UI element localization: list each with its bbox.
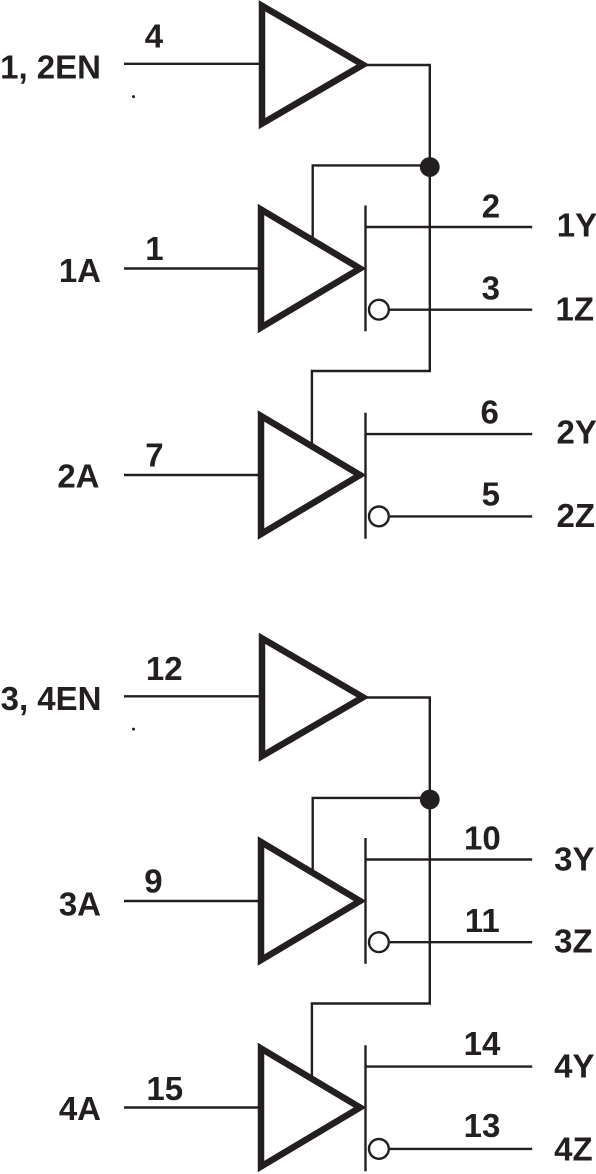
svg-text:2: 2 — [482, 188, 500, 225]
svg-text:3Z: 3Z — [554, 923, 593, 960]
svg-text:15: 15 — [146, 1070, 183, 1107]
svg-text:3: 3 — [482, 270, 500, 307]
svg-text:3Y: 3Y — [554, 841, 594, 878]
svg-text:1: 1 — [145, 230, 163, 267]
svg-text:10: 10 — [464, 819, 501, 856]
svg-text:1Y: 1Y — [557, 207, 596, 244]
svg-text:4A: 4A — [59, 1090, 101, 1127]
svg-text:5: 5 — [482, 475, 500, 512]
svg-text:13: 13 — [464, 1107, 501, 1144]
svg-text:4Z: 4Z — [554, 1131, 593, 1168]
svg-text:12: 12 — [146, 650, 183, 687]
svg-text:9: 9 — [144, 863, 162, 900]
svg-text:3, 4EN: 3, 4EN — [1, 680, 102, 717]
svg-text:14: 14 — [464, 1025, 501, 1062]
svg-text:2Z: 2Z — [557, 497, 596, 534]
svg-text:1Z: 1Z — [556, 291, 595, 328]
svg-text:4: 4 — [145, 17, 164, 54]
svg-text:11: 11 — [465, 902, 500, 939]
svg-text:1A: 1A — [59, 252, 101, 289]
svg-text:3A: 3A — [59, 886, 101, 923]
svg-text:2Y: 2Y — [557, 414, 596, 451]
svg-text:2A: 2A — [57, 458, 99, 495]
svg-text:7: 7 — [145, 437, 163, 474]
svg-text:6: 6 — [481, 394, 499, 431]
svg-text:1, 2EN: 1, 2EN — [0, 48, 101, 85]
svg-text:4Y: 4Y — [554, 1048, 594, 1085]
